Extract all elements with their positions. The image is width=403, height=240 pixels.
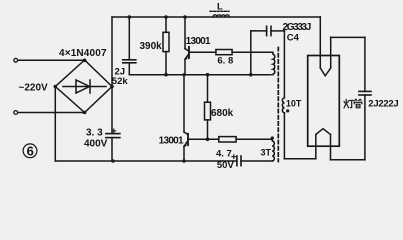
svg-text:10T: 10T [286, 99, 302, 109]
svg-text:4×1N4007: 4×1N4007 [59, 48, 107, 59]
svg-text:3T: 3T [261, 148, 272, 158]
svg-text:L: L [217, 1, 223, 12]
svg-text:2G333J: 2G333J [283, 22, 312, 33]
svg-text:400V: 400V [84, 139, 108, 150]
svg-text:680k: 680k [211, 108, 234, 119]
svg-text:~220V: ~220V [19, 83, 49, 94]
svg-text:2J222J: 2J222J [368, 98, 398, 109]
svg-text:52k: 52k [112, 76, 129, 87]
svg-text:4. 7: 4. 7 [216, 148, 232, 159]
svg-text:3. 3: 3. 3 [86, 127, 103, 138]
svg-text:390k: 390k [140, 41, 163, 52]
svg-text:C4: C4 [287, 33, 300, 44]
svg-text:6: 6 [27, 144, 34, 159]
svg-text:13001: 13001 [186, 36, 211, 47]
svg-text:13001: 13001 [159, 136, 184, 147]
svg-text:6. 8: 6. 8 [217, 55, 233, 66]
svg-text:50V: 50V [217, 160, 235, 171]
